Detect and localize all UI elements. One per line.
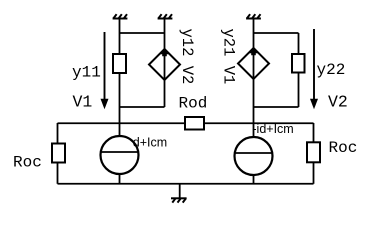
resistor Rod — [185, 117, 204, 130]
current source I2 circle — [235, 137, 273, 175]
wire node V1 drop — [119, 107, 121, 123]
D1 arrow shaft — [164, 55, 166, 79]
current source I2 wire to bottom — [253, 175, 255, 184]
current source I1 bar — [101, 151, 138, 153]
dependent source D2 (y21 V1) diamond — [238, 48, 269, 79]
wire Roc-left branch upper — [57, 123, 59, 144]
resistor Roc left — [52, 144, 65, 163]
D2 arrowhead — [250, 46, 258, 55]
wire y21V1 branch upper — [253, 33, 255, 48]
svg-text:y22: y22 — [317, 61, 346, 79]
current source I1 wire to bottom — [119, 174, 121, 184]
wire y22 branch lower — [298, 73, 300, 108]
svg-text:-id+Icm: -id+Icm — [252, 122, 293, 136]
resistor y22 — [292, 54, 305, 73]
arrow V1 (y11 port current) shaft — [104, 32, 106, 100]
wire y21V1 branch lower — [253, 79, 255, 107]
wire y11 branch lower — [119, 73, 121, 107]
svg-text:Rod: Rod — [179, 94, 208, 112]
ground G3 (top of right section) — [246, 14, 261, 18]
ground G2 (top of y12V2 source branch) — [158, 14, 173, 18]
current source I2 bar — [235, 152, 272, 154]
wire y12V2 branch upper — [164, 33, 166, 49]
D1 arrowhead — [161, 47, 169, 56]
svg-text:Roc: Roc — [13, 154, 42, 172]
wire left section bottom — [120, 106, 165, 108]
svg-text:y12 V2: y12 V2 — [178, 29, 196, 85]
svg-text:y11: y11 — [72, 64, 101, 82]
wire y12V2 branch lower — [164, 80, 166, 107]
ground G4 (bottom) stub — [179, 184, 181, 199]
arrow V2 (y22 port current) shaft — [313, 29, 315, 100]
wire Roc-right branch lower — [313, 162, 315, 184]
D2 arrow shaft — [253, 54, 255, 78]
wire bottom bus — [58, 183, 314, 185]
wire Roc-right branch upper — [313, 123, 315, 142]
wire ground G1 stub — [119, 19, 121, 34]
wire node V2 drop upper — [253, 107, 255, 123]
svg-text:y21 V1: y21 V1 — [220, 29, 238, 85]
current source I2 wire from bus — [253, 123, 255, 138]
wire right top rail — [254, 32, 299, 34]
arrow V2 head — [310, 99, 318, 110]
svg-text:d+Icm: d+Icm — [133, 136, 167, 150]
svg-text:Roc: Roc — [329, 139, 358, 157]
current source I1 (left) wire from bus — [119, 123, 121, 137]
wire ground G2 stub — [164, 19, 166, 34]
resistor y11 — [113, 54, 126, 73]
svg-text:V2: V2 — [328, 93, 348, 112]
wire y11 branch upper — [119, 33, 121, 54]
arrow V1 head — [101, 99, 109, 110]
wire right section bottom — [254, 106, 299, 108]
dependent source D1 (y12 V2) diamond — [149, 49, 180, 80]
svg-text:V1: V1 — [73, 93, 93, 112]
wire left top rail — [120, 32, 165, 34]
current source I1 circle — [101, 136, 139, 174]
ground G4 (bottom) — [171, 198, 187, 202]
ground G1 (top of y11 branch) — [113, 14, 128, 18]
wire y22 branch upper — [298, 33, 300, 54]
resistor Roc right — [307, 142, 320, 162]
wire Roc-left branch lower — [57, 163, 59, 184]
wire main bus (node V1 to node V2) — [58, 122, 314, 124]
wire ground G3 stub — [253, 19, 255, 34]
